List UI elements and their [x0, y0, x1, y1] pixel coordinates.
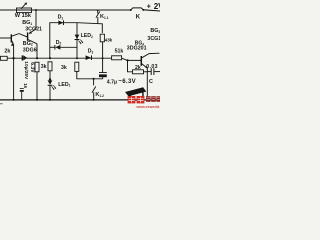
contact K1.1: [97, 10, 99, 13]
wire D1 branch: [50, 23, 103, 59]
potentiometer W 15k: [17, 8, 32, 13]
svg-text:3k: 3k: [41, 64, 47, 70]
wire bottom rail: [0, 99, 160, 101]
wire BG1 emitter vertical: [35, 10, 37, 29]
svg-text:2k: 2k: [4, 49, 10, 55]
capacitor 0.03: [147, 71, 151, 73]
wire top rail right: [144, 10, 161, 11]
wire BG4 emitter vertical: [146, 68, 148, 100]
contact K1.2: [93, 79, 95, 86]
svg-text:4.7µ: 4.7µ: [107, 79, 117, 85]
node junction LED1 top: [49, 78, 51, 80]
wire LED2 vertical x77: [76, 23, 78, 59]
svg-text:2k: 2k: [135, 65, 141, 71]
node junction main/D-chain: [49, 57, 51, 59]
LED1: [48, 80, 53, 84]
capacitor 4.7u electrolytic: [102, 58, 104, 72]
wire BG1 collector down: [36, 44, 38, 58]
svg-text:K: K: [136, 15, 141, 21]
svg-text:43k: 43k: [105, 38, 113, 43]
svg-text:3CG21: 3CG21: [25, 27, 42, 33]
watermark dark red text: [146, 96, 160, 102]
relay coil K1 black block: [125, 87, 146, 96]
transistor BG2 (NPN): [0, 37, 11, 39]
node junction main/BG2 emitter: [12, 57, 14, 59]
svg-text:51k: 51k: [115, 49, 124, 55]
resistor 2k left: [0, 56, 7, 60]
svg-text:www.eeworld.c: www.eeworld.c: [135, 105, 160, 109]
svg-text:10µ/25V: 10µ/25V: [23, 61, 29, 80]
watermark red char 1: [128, 96, 136, 103]
transistor BG1 (PNP): [29, 29, 36, 34]
wire main horizontal: [0, 57, 112, 59]
svg-text:3DG6: 3DG6: [23, 47, 37, 53]
svg-text:2V: 2V: [154, 2, 160, 11]
svg-text:+: +: [147, 2, 152, 11]
svg-text:C: C: [149, 79, 153, 85]
node rail junctions: [13, 99, 15, 101]
switch K on top rail: [130, 9, 132, 11]
node junction K1.2 top: [93, 78, 95, 80]
capacitor 10u electrolytic small: [20, 87, 24, 89]
resistor 43k: [100, 34, 104, 42]
diode D3: [86, 55, 92, 60]
svg-text:6.3V: 6.3V: [29, 62, 35, 73]
LED2: [75, 35, 80, 39]
svg-text:3CG12: 3CG12: [147, 36, 160, 42]
wire 51k to BG4 base: [122, 58, 141, 60]
node junction main/43k: [102, 57, 104, 59]
wire 3k to cap bottom: [77, 71, 103, 78]
wire down to 2k: [128, 60, 133, 71]
diode D2: [50, 46, 55, 48]
node junction main/BG1 collector: [36, 57, 38, 59]
resistor 3k (x37): [35, 62, 39, 72]
resistor 3k (x77): [75, 62, 79, 71]
watermark red char 2: [137, 96, 145, 103]
resistor 51k: [112, 56, 122, 60]
node junction top rail to BG1 emitter: [35, 9, 37, 11]
svg-text:~6.3V: ~6.3V: [118, 79, 136, 85]
wire top rail left: [0, 9, 131, 11]
left edge speck: [0, 103, 3, 104]
resistor 2k right: [133, 70, 144, 74]
svg-text:W 15k: W 15k: [15, 13, 32, 19]
diode D1: [58, 20, 63, 25]
transistor BG4 (NPN): [140, 56, 142, 66]
node junction main/LED2 branch: [76, 57, 78, 59]
diode D4 on main wire: [21, 55, 23, 60]
svg-text:3k: 3k: [61, 65, 67, 71]
svg-text:16: 16: [23, 83, 28, 88]
svg-text:0.03: 0.03: [146, 64, 158, 70]
wire cap branch vertical x22: [13, 58, 15, 100]
svg-text:3DG201: 3DG201: [127, 46, 147, 52]
node junction base/2k: [126, 59, 128, 61]
resistor 3k (x50): [48, 62, 52, 71]
